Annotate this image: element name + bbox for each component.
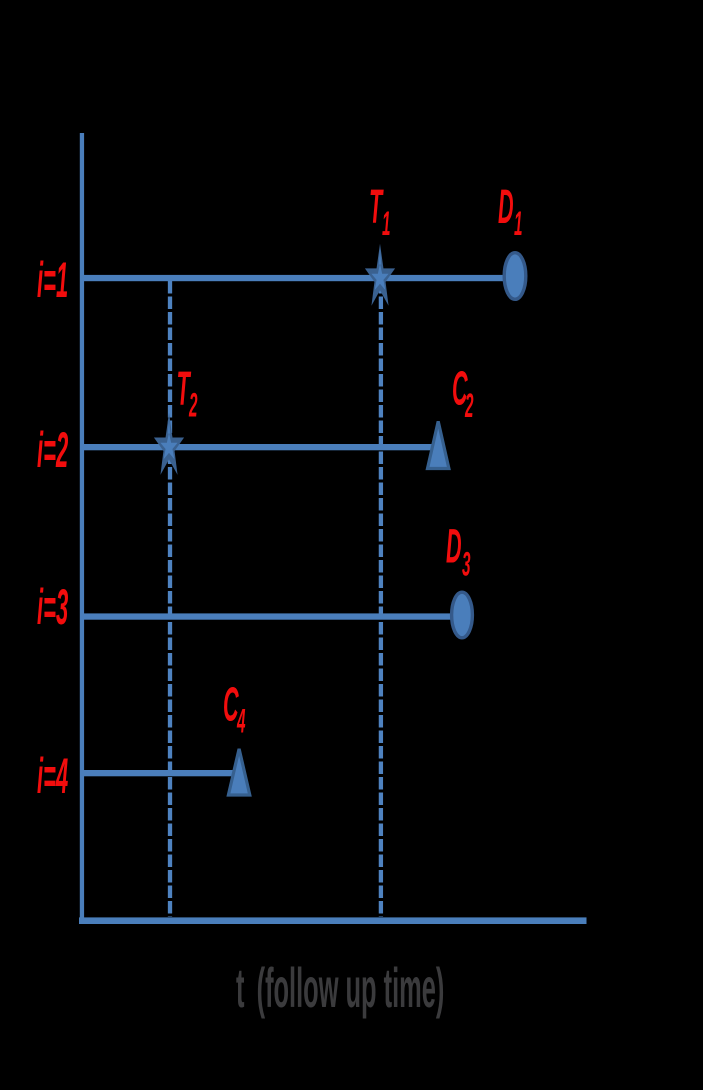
svg-text:D: D xyxy=(498,179,514,233)
svg-text:3: 3 xyxy=(462,545,471,584)
triangle marker C4 (censor) xyxy=(228,749,249,795)
svg-text:D: D xyxy=(446,519,462,573)
dashed drop line at T1 (x=381) xyxy=(379,281,383,917)
svg-text:i=3: i=3 xyxy=(37,580,68,636)
follow-up line i=4 xyxy=(82,770,239,776)
svg-text:i=1: i=1 xyxy=(37,253,68,309)
star marker T1 inner light star xyxy=(371,264,388,290)
svg-text:1: 1 xyxy=(514,204,523,243)
star marker T2 inner light star xyxy=(160,433,177,459)
y axis xyxy=(80,133,84,924)
svg-text:t (follow up time): t (follow up time) xyxy=(236,958,444,1020)
light streak in star T1 spike xyxy=(379,249,382,265)
star marker T2 on line i=2 (dark outer star) xyxy=(154,413,184,475)
dashed drop line at T2 (x=170) xyxy=(168,281,172,917)
ellipse marker D1 (death) xyxy=(504,253,526,300)
svg-text:i=4: i=4 xyxy=(37,749,68,805)
follow-up line i=3 xyxy=(82,613,462,619)
follow-up line i=2 xyxy=(82,444,438,450)
svg-text:2: 2 xyxy=(188,386,197,425)
triangle marker C2 (censor) xyxy=(428,421,449,468)
ellipse marker D3 (death) xyxy=(452,592,473,638)
x axis (time axis) xyxy=(79,917,587,924)
follow-up line i=1 xyxy=(82,275,515,281)
star marker T1 on line i=1 (dark outer star) xyxy=(365,244,395,306)
svg-text:2: 2 xyxy=(464,386,473,425)
svg-text:4: 4 xyxy=(236,702,245,741)
svg-text:1: 1 xyxy=(382,204,391,243)
svg-text:i=2: i=2 xyxy=(37,423,68,479)
light streak in star T2 spike xyxy=(168,418,171,434)
